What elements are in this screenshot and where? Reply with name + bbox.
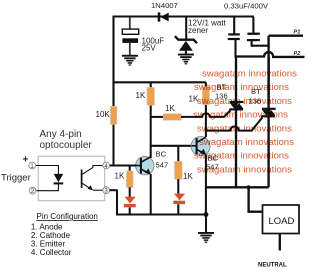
capacitor C2 bottom lead	[234, 40, 236, 57]
diode D2 red symbol	[124, 197, 136, 207]
svg-text:Any 4-pin: Any 4-pin	[40, 129, 82, 140]
wire common node to triacs	[206, 186, 269, 188]
resistor R1 10K leads	[112, 82, 114, 107]
capacitor C2 0.33uF lead	[233, 17, 235, 34]
svg-text:4. Collector: 4. Collector	[31, 248, 72, 257]
resistor R6 1K (Q1 base) lead	[129, 166, 131, 172]
svg-text:+: +	[23, 155, 29, 166]
svg-text:swagatam innovations: swagatam innovations	[194, 151, 289, 162]
svg-text:swagatam innovations: swagatam innovations	[199, 137, 294, 148]
svg-text:0.33uF/400V: 0.33uF/400V	[224, 2, 269, 11]
resistor R2 1K	[147, 88, 154, 106]
wire left rail	[112, 16, 114, 107]
svg-text:P1: P1	[294, 30, 301, 36]
svg-text:1K: 1K	[183, 172, 193, 181]
wire P1	[269, 35, 303, 37]
wire Q1 emitter down	[150, 174, 152, 215]
resistor R5 1K (Q2 base pulldown) lead	[177, 146, 179, 162]
svg-text:P2: P2	[294, 51, 302, 57]
capacitor C3 bottom lead	[252, 41, 269, 46]
triac T1 BT136 main leg	[235, 56, 237, 187]
svg-text:swagatam innovations: swagatam innovations	[197, 164, 292, 175]
wire to load	[249, 187, 263, 211]
resistor R5 1K	[175, 161, 183, 179]
wire vertical right main (triac2 leg)	[267, 36, 269, 101]
capacitor C2 plates	[228, 33, 240, 35]
wire bus 12V	[113, 81, 206, 83]
resistor R2 1K leads	[150, 82, 152, 88]
resistor R1 10K	[110, 106, 117, 124]
svg-text:Trigger: Trigger	[1, 173, 31, 184]
resistor R4 1K horizontal leads	[150, 116, 164, 118]
triac T2 symbol	[261, 108, 276, 118]
svg-text:swagatam innovations: swagatam innovations	[193, 110, 288, 121]
capacitor C1 100uF plates	[122, 29, 138, 34]
pin circle 1	[29, 162, 36, 170]
optocoupler box	[38, 156, 105, 201]
svg-text:1K: 1K	[165, 104, 175, 113]
wire gate bus with hop over triac1 leg	[206, 118, 262, 131]
svg-text:547: 547	[156, 161, 169, 170]
wire Q2 emitter down	[205, 155, 207, 215]
zener ZD1 lead	[185, 17, 187, 39]
junction dot ground	[204, 212, 209, 217]
svg-text:Pin Configuration: Pin Configuration	[37, 212, 98, 221]
resistor R4 1K body	[163, 114, 181, 121]
svg-text:1K: 1K	[136, 91, 146, 100]
pin circle 3	[103, 187, 110, 195]
transistor Q2 BC547	[191, 137, 210, 156]
svg-text:swagatam innovations: swagatam innovations	[197, 123, 292, 134]
resistor R3 1K	[202, 87, 209, 105]
junction dot load	[247, 185, 251, 189]
opto phototransistor	[81, 170, 83, 189]
svg-text:zener: zener	[188, 26, 208, 35]
ground 3	[198, 232, 214, 243]
capacitor C3 plates	[247, 33, 259, 35]
triac T1 symbol	[229, 101, 243, 111]
opto LED wires	[36, 166, 59, 175]
wire emitter ground bus	[117, 190, 206, 215]
ground 2	[178, 54, 194, 65]
triac T2 BT136 main leg	[267, 55, 269, 116]
transistor Q1 BC547	[136, 157, 154, 175]
wire Q1 collector to Q2 base	[151, 145, 192, 147]
wire triac2 lower leg	[267, 117, 269, 188]
svg-text:optocoupler: optocoupler	[40, 140, 93, 151]
svg-text:BC: BC	[156, 150, 167, 159]
diode D1 1N4007	[158, 12, 169, 21]
diode D2 red lead	[129, 187, 131, 197]
svg-text:swagatam innovations: swagatam innovations	[202, 69, 297, 80]
diode D3 red symbol	[173, 194, 185, 204]
pin circle 4	[103, 162, 110, 170]
svg-text:1K: 1K	[115, 172, 125, 181]
svg-text:NEUTRAL: NEUTRAL	[258, 263, 287, 269]
wire pin3 to ground bus	[110, 189, 118, 191]
wire top rail	[114, 15, 255, 17]
wire P2 with hop	[236, 52, 305, 57]
svg-text:1N4007: 1N4007	[151, 1, 178, 10]
zener ZD1 symbol	[175, 36, 197, 43]
wire to ground 3	[205, 215, 207, 233]
pin circle 2	[29, 187, 36, 195]
svg-text:swagatam innovations: swagatam innovations	[194, 82, 289, 93]
wire pin4 to Q1 base	[110, 164, 137, 166]
svg-text:10K: 10K	[96, 110, 111, 119]
LOAD box	[263, 205, 300, 234]
resistor R3 1K leads	[205, 82, 207, 87]
resistor R6 1K	[126, 171, 133, 188]
svg-text:25V: 25V	[142, 44, 157, 53]
diode D3 red lead	[177, 179, 179, 194]
wire load to neutral	[279, 234, 281, 251]
wire R4 to triac1 gate with hop over collector line	[181, 110, 230, 117]
capacitor C1 100uF lead	[129, 17, 131, 30]
capacitor C3 0.33uF lead	[252, 17, 254, 33]
watermark swagatam innovations	[193, 69, 297, 176]
opto LED	[54, 174, 64, 183]
svg-text:LOAD: LOAD	[269, 216, 295, 227]
ground 1	[122, 55, 138, 66]
svg-text:swagatam innovations: swagatam innovations	[197, 96, 292, 107]
